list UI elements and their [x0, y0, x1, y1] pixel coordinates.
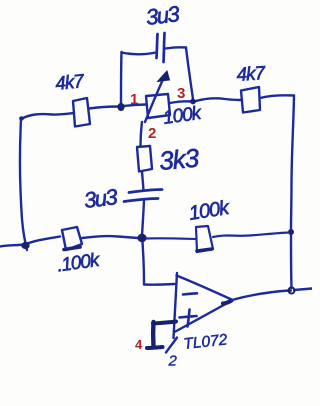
op-amp U1 top edge	[177, 276, 232, 300]
svg-text:100k: 100k	[187, 197, 231, 225]
wire right vertical upper	[291, 96, 294, 232]
wire resistor R2 to node E	[89, 107, 118, 109]
wire potentiometer P1 to node F	[170, 101, 192, 103]
resistor R3 4k7 right	[241, 87, 260, 113]
resistor R1 100k input	[62, 227, 82, 250]
junction node A	[21, 242, 29, 249]
op-amp U1 apex ink blob	[223, 301, 232, 304]
resistor R5 3k3	[137, 146, 152, 172]
svg-text:1: 1	[130, 91, 138, 108]
svg-text:100k: 100k	[162, 103, 204, 129]
wire potentiometer wiper down to resistor R5	[141, 122, 143, 146]
wire output east	[294, 289, 312, 291]
wire resistor R1 to node B	[82, 236, 138, 238]
junction node C	[288, 229, 294, 235]
wire node B south	[143, 242, 145, 284]
op-amp U1 bottom edge	[175, 301, 232, 332]
wire left vertical branch	[20, 119, 27, 250]
junction node E	[117, 103, 124, 111]
svg-text:2: 2	[148, 125, 156, 142]
capacitor C1 3u3 left plate	[157, 34, 158, 58]
capacitor C2 3u3 bottom plate	[124, 199, 158, 202]
wire node B to resistor R4	[146, 237, 195, 240]
wire from node A to resistor R1	[26, 237, 60, 245]
svg-text:4k7: 4k7	[236, 63, 267, 86]
wire op-amp output to node D	[232, 291, 289, 301]
wire capacitor C1 loop right vertical	[186, 48, 193, 100]
wire resistor R5 to capacitor C2	[142, 172, 144, 191]
potentiometer wiper arrowhead	[158, 71, 170, 82]
ground vertical stroke	[151, 322, 156, 346]
wire resistor R3 to top right corner	[260, 95, 294, 98]
junction node F	[190, 99, 196, 105]
wire node E to potentiometer P1	[124, 105, 146, 107]
ground base bar	[147, 347, 163, 348]
svg-text:2: 2	[168, 353, 178, 370]
svg-text:.100k: .100k	[56, 250, 102, 277]
wire capacitor C1 loop left vertical	[120, 52, 123, 104]
svg-text:4: 4	[135, 337, 143, 352]
potentiometer P1 body 100k	[146, 94, 170, 118]
wire capacitor C1 to right loop	[166, 47, 187, 48]
wire top-left horizontal to resistor R2	[21, 113, 74, 119]
junction node D output	[289, 288, 295, 294]
wire capacitor C2 to node B	[142, 200, 144, 236]
op-amp minus sign	[183, 293, 197, 294]
op-amp plus sign	[180, 310, 197, 327]
capacitor C2 3u3 top plate	[129, 190, 162, 193]
svg-text:3u3: 3u3	[83, 184, 120, 213]
wire plus input to ground	[153, 322, 176, 324]
capacitor C1 3u3 right plate	[164, 33, 165, 62]
potentiometer wiper arrow shaft	[145, 74, 166, 122]
wire capacitor C1 loop top left	[122, 53, 157, 55]
svg-text:3: 3	[177, 85, 185, 102]
resistor R2 4k7 left	[73, 98, 90, 127]
wire right vertical lower	[290, 234, 293, 288]
resistor R4 100k feedback body	[196, 226, 213, 252]
svg-text:TL072: TL072	[183, 331, 229, 353]
junction node B	[137, 234, 146, 242]
label one-half slash	[166, 338, 177, 353]
wire input line west	[0, 245, 24, 247]
op-amp U1 left edge	[174, 273, 178, 338]
wire corner blob top-left	[19, 116, 24, 120]
svg-text:4k7: 4k7	[54, 71, 86, 95]
svg-text:3u3: 3u3	[145, 1, 182, 30]
svg-text:3k3: 3k3	[158, 143, 201, 176]
wire to op-amp inverting input	[144, 283, 175, 286]
wire node F to resistor R3	[196, 98, 241, 101]
wire resistor R4 to node C	[213, 233, 289, 238]
